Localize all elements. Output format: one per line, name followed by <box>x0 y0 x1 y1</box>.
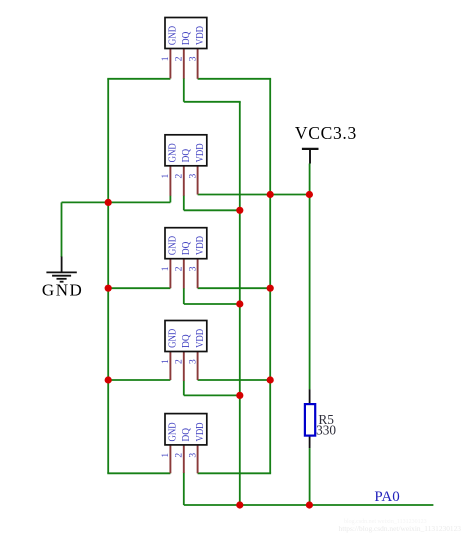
svg-text:3: 3 <box>188 266 198 271</box>
svg-text:2: 2 <box>175 359 185 364</box>
svg-text:1: 1 <box>161 359 171 364</box>
svg-text:DQ: DQ <box>181 241 192 255</box>
svg-text:3: 3 <box>188 453 198 458</box>
svg-text:GND: GND <box>168 236 179 256</box>
svg-text:GND: GND <box>42 281 83 300</box>
svg-text:GND: GND <box>168 143 179 163</box>
svg-text:3: 3 <box>188 359 198 364</box>
svg-text:VDD: VDD <box>195 236 206 255</box>
svg-text:1: 1 <box>161 266 171 271</box>
svg-text:DQ: DQ <box>181 334 192 348</box>
svg-text:2: 2 <box>175 174 185 179</box>
svg-text:VDD: VDD <box>195 329 206 348</box>
svg-text:GND: GND <box>168 422 179 442</box>
svg-text:VDD: VDD <box>195 422 206 441</box>
svg-text:1: 1 <box>161 174 171 179</box>
svg-text:3: 3 <box>188 56 198 61</box>
svg-text:330: 330 <box>316 423 336 438</box>
svg-text:3: 3 <box>188 174 198 179</box>
svg-text:DQ: DQ <box>181 149 192 163</box>
svg-text:VDD: VDD <box>195 26 206 45</box>
svg-text:DQ: DQ <box>181 428 192 442</box>
svg-text:PA0: PA0 <box>374 489 399 505</box>
svg-text:1: 1 <box>161 56 171 61</box>
svg-text:1: 1 <box>161 453 171 458</box>
svg-text:2: 2 <box>175 56 185 61</box>
svg-text:GND: GND <box>168 26 179 46</box>
svg-text:DQ: DQ <box>181 31 192 45</box>
svg-text:VCC3.3: VCC3.3 <box>295 123 357 143</box>
svg-text:2: 2 <box>175 266 185 271</box>
svg-text:https://blog.csdn.net/weixin_1: https://blog.csdn.net/weixin_1131230123 <box>339 524 462 533</box>
svg-text:GND: GND <box>168 328 179 348</box>
svg-text:2: 2 <box>175 453 185 458</box>
svg-text:VDD: VDD <box>195 143 206 162</box>
